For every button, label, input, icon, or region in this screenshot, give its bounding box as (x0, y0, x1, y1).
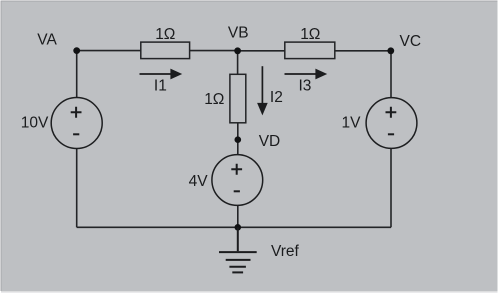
svg-text:VC: VC (400, 33, 422, 50)
wire bottom rail (77, 226, 391, 228)
wire middle: R3 to node VD (237, 123, 239, 140)
voltage source V2 4V circle (212, 155, 263, 206)
V2 minus sign (234, 190, 240, 192)
svg-text:1Ω: 1Ω (300, 26, 320, 43)
node VC junction dot (387, 47, 394, 54)
wire middle: 4V source to bottom rail (237, 205, 239, 227)
V1 minus sign (73, 133, 79, 135)
svg-text:1Ω: 1Ω (155, 26, 175, 43)
V1 plus sign (71, 107, 82, 118)
voltage source V1 10V circle (51, 98, 102, 149)
svg-text:VD: VD (259, 133, 281, 150)
svg-text:10V: 10V (21, 115, 49, 132)
wire top: R1 to VB (190, 50, 238, 52)
svg-text:1V: 1V (342, 114, 362, 131)
wire right branch: VC down to 1V source (390, 51, 392, 98)
resistor R3 body (vertical) (230, 74, 246, 123)
wire middle: VB down to R3 (237, 51, 239, 75)
current arrow I3 (285, 69, 328, 80)
current arrow I2 (257, 66, 268, 115)
wire top: VA to R1 (77, 50, 141, 52)
resistor R1 body (141, 42, 190, 59)
svg-text:VB: VB (228, 24, 249, 41)
svg-text:I3: I3 (299, 77, 312, 94)
svg-text:I1: I1 (154, 77, 167, 94)
wire right branch: 1V source to bottom rail (390, 148, 392, 227)
voltage source V3 1V circle (366, 98, 417, 149)
node VA junction dot (73, 47, 80, 54)
resistor R2 body (285, 42, 335, 59)
current arrow I1 (140, 69, 183, 80)
V2 plus sign (231, 164, 242, 175)
svg-text:4V: 4V (189, 173, 209, 190)
V3 minus sign (388, 133, 394, 135)
svg-text:I2: I2 (270, 89, 283, 106)
wire left branch: VA down to 10V source (76, 51, 78, 98)
svg-text:VA: VA (37, 32, 57, 49)
wire middle: VD to 4V source (237, 140, 239, 155)
wire top: R2 to VC (335, 50, 391, 52)
wire top: VB to R2 (238, 50, 285, 52)
wire left branch: 10V source to bottom rail (76, 148, 78, 227)
V3 plus sign (386, 107, 397, 118)
ground symbol (Vref) (219, 227, 257, 272)
node VB junction dot (234, 47, 241, 54)
bottom rail junction dot (235, 224, 242, 231)
node VD junction dot (235, 136, 242, 143)
svg-text:1Ω: 1Ω (204, 91, 224, 108)
svg-text:Vref: Vref (271, 243, 300, 260)
